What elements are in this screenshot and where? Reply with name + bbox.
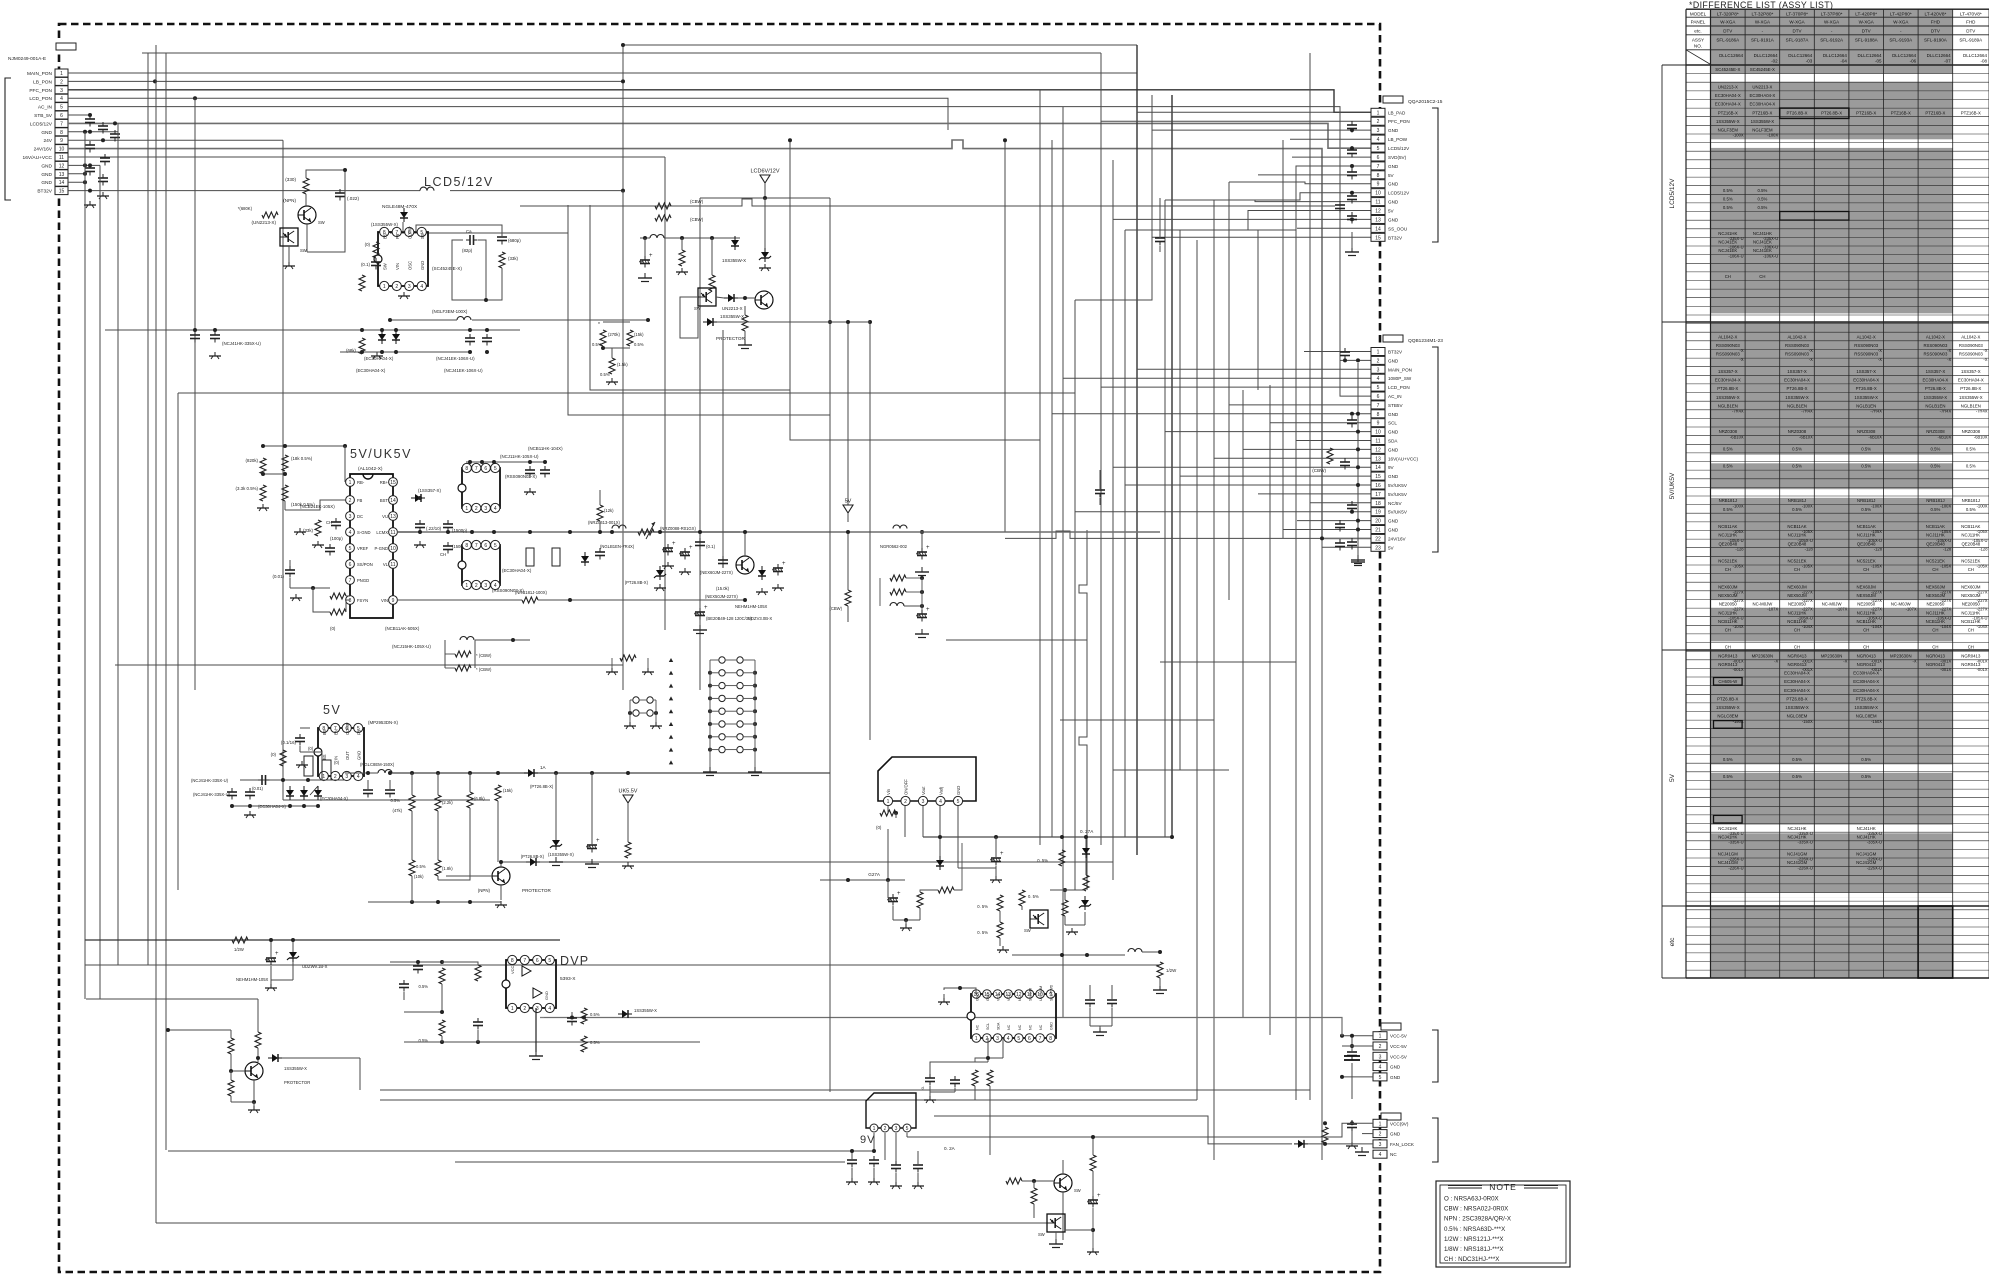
wire bbox=[1152, 95, 1371, 130]
svg-text:5V: 5V bbox=[1669, 773, 1676, 782]
wire bbox=[1113, 466, 1371, 468]
svg-text:EC30HA04-X: EC30HA04-X bbox=[1784, 688, 1810, 693]
svg-text:1: 1 bbox=[511, 1006, 514, 1012]
svg-text:-100X: -100X bbox=[1733, 133, 1744, 138]
polarized capacitor bbox=[684, 548, 686, 552]
svg-text:11: 11 bbox=[1375, 439, 1380, 445]
wire bbox=[232, 805, 318, 807]
svg-text:-7R4X: -7R4X bbox=[1732, 409, 1744, 414]
svg-text:(15.0k): (15.0k) bbox=[716, 586, 730, 591]
wire bbox=[84, 940, 86, 999]
ground bbox=[262, 504, 264, 508]
svg-text:6: 6 bbox=[484, 543, 487, 549]
wire bbox=[257, 999, 259, 1032]
wire bbox=[627, 803, 629, 842]
svg-text:SFL-9189A: SFL-9189A bbox=[1959, 37, 1982, 42]
svg-text:12: 12 bbox=[59, 163, 65, 169]
svg-text:-X: -X bbox=[1913, 659, 1917, 664]
svg-text:2: 2 bbox=[1379, 1044, 1382, 1050]
ground bbox=[929, 1096, 931, 1100]
wire bbox=[1064, 890, 1066, 900]
ic U8 16-pin bbox=[971, 994, 1056, 1038]
wire bbox=[263, 445, 345, 447]
svg-text:8: 8 bbox=[60, 130, 63, 136]
svg-text:14: 14 bbox=[390, 498, 396, 504]
svg-text:CH: CH bbox=[1863, 645, 1869, 650]
svg-text:GND: GND bbox=[1390, 1065, 1401, 1070]
ground bbox=[591, 859, 593, 864]
svg-text:(0): (0) bbox=[876, 825, 882, 830]
svg-text:14: 14 bbox=[1375, 465, 1381, 471]
resistor 0.5% bbox=[1059, 850, 1065, 866]
svg-text:-106X-U: -106X-U bbox=[1763, 253, 1778, 258]
wire bbox=[455, 1161, 845, 1163]
svg-text:8: 8 bbox=[1377, 173, 1380, 179]
wire bbox=[1270, 422, 1371, 424]
wire bbox=[929, 1086, 931, 1096]
svg-text:DLLC12664: DLLC12664 bbox=[1927, 53, 1952, 58]
wire bbox=[68, 131, 118, 133]
svg-text:(2.2k): (2.2k) bbox=[442, 800, 453, 805]
wire bbox=[105, 329, 340, 331]
connector VCC(9V) pins bbox=[1373, 1119, 1387, 1127]
svg-text:PT26.8B-X: PT26.8B-X bbox=[1856, 386, 1877, 391]
svg-text:-03: -03 bbox=[1806, 58, 1813, 63]
diode bbox=[1294, 1143, 1298, 1145]
svg-text:-7R4X: -7R4X bbox=[1940, 409, 1952, 414]
resistor 0.5% bbox=[439, 1020, 445, 1036]
svg-text:0.5%: 0.5% bbox=[1792, 464, 1802, 469]
svg-text:AL1042-X: AL1042-X bbox=[1718, 334, 1737, 339]
svg-text:LT-420P8*: LT-420P8* bbox=[1855, 12, 1877, 17]
svg-text:GND: GND bbox=[1050, 1022, 1054, 1030]
svg-text:W-XGA: W-XGA bbox=[1824, 20, 1839, 25]
svg-text:LCD_PON: LCD_PON bbox=[29, 96, 52, 102]
svg-text:1SS355W-X: 1SS355W-X bbox=[1716, 705, 1740, 710]
svg-text:*: * bbox=[598, 322, 600, 328]
wire bbox=[722, 330, 724, 568]
svg-text:CH: CH bbox=[1794, 645, 1800, 650]
svg-text:9V: 9V bbox=[1388, 465, 1395, 470]
capacitor bbox=[1351, 538, 1353, 542]
svg-text:LT-37P80*: LT-37P80* bbox=[1821, 12, 1843, 17]
svg-text:1/2W: 1/2W bbox=[1166, 968, 1177, 973]
capacitor bbox=[1351, 192, 1353, 196]
svg-text:-001X: -001X bbox=[1940, 667, 1951, 672]
svg-text:EC30HA04-X: EC30HA04-X bbox=[1853, 671, 1879, 676]
svg-text:+: + bbox=[689, 545, 693, 551]
fuse bbox=[526, 548, 534, 566]
svg-text:2: 2 bbox=[349, 498, 352, 504]
svg-text:(12k): (12k) bbox=[604, 508, 614, 513]
svg-text:S-GND: S-GND bbox=[357, 530, 371, 535]
optocoupler UN2213-X bbox=[698, 288, 716, 306]
svg-text:-X: -X bbox=[1878, 357, 1882, 362]
ground bbox=[500, 901, 502, 905]
wire bbox=[142, 52, 1101, 54]
svg-text:0.5%: 0.5% bbox=[1723, 188, 1733, 193]
svg-text:2: 2 bbox=[523, 1006, 526, 1012]
svg-text:CH: CH bbox=[1725, 567, 1731, 572]
wire bbox=[654, 531, 740, 533]
svg-text:(NPN): (NPN) bbox=[478, 888, 491, 893]
table grid bbox=[1711, 9, 1953, 65]
wire bbox=[1258, 493, 1371, 495]
wire bbox=[194, 98, 196, 690]
svg-text:FAN_LOCK: FAN_LOCK bbox=[1390, 1142, 1415, 1147]
svg-text:GND: GND bbox=[1388, 217, 1399, 222]
wire bbox=[115, 664, 623, 666]
capacitor NCJ41EK-106X-U bbox=[486, 334, 488, 338]
svg-text:STB_5V: STB_5V bbox=[34, 113, 53, 119]
capacitor bbox=[544, 466, 546, 470]
svg-text:EC30HA04-X: EC30HA04-X bbox=[1715, 378, 1741, 383]
resistor bbox=[972, 1070, 978, 1086]
inductor bbox=[650, 235, 664, 239]
wire bbox=[1338, 1018, 1342, 1036]
capacitor bbox=[403, 980, 405, 984]
svg-text:8: 8 bbox=[1049, 1036, 1052, 1042]
svg-text:1/2W : NRS121J-***X: 1/2W : NRS121J-***X bbox=[1444, 1236, 1504, 1243]
svg-text:EC30HA04-X: EC30HA04-X bbox=[1853, 679, 1879, 684]
svg-text:CH: CH bbox=[1725, 274, 1731, 279]
svg-text:4: 4 bbox=[1379, 1152, 1382, 1158]
svg-text:SFL-9187A: SFL-9187A bbox=[1786, 37, 1809, 42]
svg-text:1SS355W-X: 1SS355W-X bbox=[722, 258, 746, 263]
resistor (15k) bbox=[495, 785, 501, 801]
svg-text:PT26.8B-X: PT26.8B-X bbox=[1786, 110, 1807, 115]
svg-text:5V: 5V bbox=[323, 703, 341, 717]
wire bbox=[1165, 200, 1371, 202]
resistor bbox=[938, 887, 954, 893]
wire staircase to FAN_LOCK bbox=[934, 1116, 1292, 1144]
svg-text:(NRZ0413-001X): (NRZ0413-001X) bbox=[588, 520, 620, 525]
ground bbox=[667, 562, 669, 566]
svg-text:UN2213-X: UN2213-X bbox=[1718, 84, 1738, 89]
diode 1SS355W-X protector bbox=[703, 321, 707, 323]
svg-text:-128: -128 bbox=[1943, 546, 1952, 551]
svg-text:-X: -X bbox=[1774, 659, 1778, 664]
svg-text:-X: -X bbox=[1809, 357, 1813, 362]
svg-text:FHD: FHD bbox=[1966, 20, 1976, 25]
svg-text:DTV: DTV bbox=[1793, 28, 1802, 33]
svg-text:PANEL: PANEL bbox=[1691, 20, 1706, 25]
svg-text:-X: -X bbox=[1983, 348, 1987, 353]
svg-text:0.5%: 0.5% bbox=[1723, 757, 1733, 762]
svg-text:Vout: Vout bbox=[921, 786, 926, 795]
ground bbox=[1002, 946, 1004, 950]
svg-text:RSS090N03: RSS090N03 bbox=[1923, 343, 1947, 348]
svg-text:(0): (0) bbox=[271, 752, 277, 757]
ground bbox=[709, 767, 711, 772]
svg-text:2: 2 bbox=[1377, 119, 1380, 125]
inductor NGLC8EM-150X bbox=[378, 770, 392, 774]
svg-text:DTV: DTV bbox=[1723, 28, 1732, 33]
svg-text:SW: SW bbox=[1038, 1232, 1045, 1237]
svg-text:-X: -X bbox=[1947, 348, 1951, 353]
ground bbox=[529, 488, 531, 492]
wire bbox=[1180, 166, 1371, 230]
svg-text:2: 2 bbox=[334, 774, 337, 780]
svg-text:5V/UK5V: 5V/UK5V bbox=[1388, 483, 1408, 488]
svg-text:9: 9 bbox=[392, 598, 395, 604]
svg-text:PNGD: PNGD bbox=[357, 578, 369, 583]
resistor (CBW) bbox=[845, 590, 851, 606]
svg-text:1SS357-X: 1SS357-X bbox=[1856, 369, 1876, 374]
diode EC30HA04-X bbox=[395, 330, 397, 334]
wire bbox=[68, 164, 100, 166]
wire bbox=[847, 532, 849, 590]
resistor (0) FSYN bbox=[330, 609, 346, 615]
svg-text:MP23630N: MP23630N bbox=[1821, 653, 1843, 658]
resistor (330) bbox=[303, 178, 309, 194]
svg-text:LT-420V8*: LT-420V8* bbox=[1924, 12, 1946, 17]
svg-text:0.5%: 0.5% bbox=[1758, 197, 1768, 202]
ground bbox=[1357, 557, 1359, 562]
svg-text:BT32V: BT32V bbox=[37, 189, 52, 195]
wire bbox=[178, 392, 1075, 394]
polarized capacitor bbox=[892, 894, 894, 898]
svg-text:10: 10 bbox=[1375, 430, 1381, 436]
svg-text:GND: GND bbox=[1388, 358, 1399, 363]
diode 1SS355W-X bbox=[526, 861, 530, 863]
svg-text:21: 21 bbox=[1375, 528, 1381, 534]
wire 0.2A bbox=[907, 1123, 1373, 1137]
wire bbox=[390, 233, 830, 415]
capacitor bbox=[917, 1161, 919, 1165]
svg-text:5V: 5V bbox=[1388, 173, 1395, 178]
wire bbox=[177, 393, 179, 890]
svg-text:LT-32P80*: LT-32P80* bbox=[1751, 12, 1773, 17]
svg-text:W-XGA: W-XGA bbox=[1755, 20, 1770, 25]
svg-text:1/2W: 1/2W bbox=[234, 947, 244, 952]
svg-text:PTZ6.8B-X: PTZ6.8B-X bbox=[1856, 697, 1877, 702]
wire bbox=[1089, 1008, 1091, 1026]
svg-text:-X: -X bbox=[1878, 348, 1882, 353]
svg-text:MAIN_PON: MAIN_PON bbox=[1388, 367, 1412, 372]
svg-text:0.5%: 0.5% bbox=[1723, 205, 1733, 210]
svg-text:16V/AU+VCC: 16V/AU+VCC bbox=[23, 155, 53, 161]
svg-text:1: 1 bbox=[465, 583, 468, 589]
svg-text:5: 5 bbox=[349, 546, 352, 552]
resistor (3.3k 0.5%) bbox=[260, 485, 266, 501]
svg-text:+: + bbox=[1097, 1193, 1101, 1199]
svg-text:* (CBW): * (CBW) bbox=[476, 653, 492, 658]
capacitor (.022) bbox=[339, 189, 341, 193]
svg-text:LCD5/12V: LCD5/12V bbox=[30, 121, 53, 127]
svg-text:0. 2A: 0. 2A bbox=[944, 1146, 956, 1151]
zener diode UDZW9.1B-X bbox=[292, 948, 294, 952]
capacitor bbox=[1351, 168, 1353, 172]
svg-text:SEL/PWD: SEL/PWD bbox=[1050, 984, 1054, 1001]
wire bbox=[289, 560, 291, 566]
svg-text:20: 20 bbox=[1375, 519, 1381, 525]
svg-text:22: 22 bbox=[1375, 536, 1381, 542]
wire bbox=[1171, 95, 1173, 837]
svg-text:-100X: -100X bbox=[1733, 503, 1744, 508]
ground bbox=[535, 1051, 537, 1056]
ground bbox=[627, 862, 629, 866]
capacitor Ca (82p) bbox=[466, 239, 470, 241]
svg-text:2: 2 bbox=[1377, 358, 1380, 364]
svg-text:0.5%: 0.5% bbox=[1966, 447, 1976, 452]
wire bbox=[368, 901, 501, 903]
ground bbox=[1071, 928, 1073, 932]
wire bbox=[887, 880, 889, 898]
svg-text:-106X-U: -106X-U bbox=[1728, 253, 1743, 258]
resistor (33k) bbox=[315, 520, 321, 536]
wire bbox=[943, 994, 945, 998]
transistor Q1 NPN bbox=[298, 206, 316, 224]
svg-text:PT26.8B-X: PT26.8B-X bbox=[1821, 110, 1842, 115]
capacitor CH bbox=[447, 542, 449, 546]
svg-text:2: 2 bbox=[1379, 1132, 1382, 1138]
svg-text:0.5% : NRSA63D-***X: 0.5% : NRSA63D-***X bbox=[1444, 1226, 1505, 1233]
svg-text:14: 14 bbox=[1375, 226, 1381, 232]
diode 1SS355W-X bbox=[618, 1013, 622, 1015]
svg-text:DLLC12664: DLLC12664 bbox=[1892, 53, 1917, 58]
svg-text:(0.01): (0.01) bbox=[273, 574, 285, 579]
svg-text:QQA2015C2-15: QQA2015C2-15 bbox=[1408, 99, 1443, 105]
svg-text:FSYN: FSYN bbox=[357, 598, 368, 603]
wire bbox=[1060, 719, 1214, 721]
svg-text:(0.1/16): (0.1/16) bbox=[281, 740, 297, 745]
svg-text:-104X: -104X bbox=[1871, 624, 1882, 629]
svg-text:1: 1 bbox=[1377, 350, 1380, 356]
ground bbox=[555, 857, 557, 862]
svg-text:2: 2 bbox=[884, 1126, 887, 1132]
svg-text:0.5%: 0.5% bbox=[1861, 464, 1871, 469]
wire bbox=[1179, 230, 1181, 770]
svg-text:8: 8 bbox=[349, 598, 352, 604]
svg-text:NOTE: NOTE bbox=[1489, 1182, 1517, 1192]
svg-text:1SS357-X: 1SS357-X bbox=[1718, 369, 1738, 374]
wire bbox=[995, 837, 997, 858]
svg-text:8: 8 bbox=[1377, 412, 1380, 418]
svg-text:5: 5 bbox=[957, 799, 960, 805]
svg-text:SFL-9188A: SFL-9188A bbox=[1855, 37, 1878, 42]
svg-text:6: 6 bbox=[1377, 394, 1380, 400]
svg-text:2: 2 bbox=[475, 583, 478, 589]
svg-text:1: 1 bbox=[975, 1036, 978, 1042]
svg-text:AL1042-X: AL1042-X bbox=[1926, 334, 1945, 339]
svg-text:CH605-W: CH605-W bbox=[1718, 679, 1738, 684]
wire bbox=[68, 156, 665, 158]
svg-text:0.5%: 0.5% bbox=[390, 798, 400, 803]
transistor Q2 NPN bbox=[755, 291, 773, 309]
resistor bbox=[987, 1070, 993, 1086]
svg-text:COMP: COMP bbox=[345, 722, 350, 735]
svg-text:(NEX50JM-227X): (NEX50JM-227X) bbox=[705, 594, 738, 599]
capacitor bbox=[571, 1014, 573, 1018]
wire bbox=[1321, 538, 1323, 1160]
svg-text:0.5%: 0.5% bbox=[1723, 507, 1733, 512]
wire GND bus QQB bbox=[1357, 363, 1359, 556]
resistor (18k 0.5%) bbox=[282, 455, 288, 471]
svg-text:VCC-5V: VCC-5V bbox=[1390, 1044, 1408, 1049]
svg-text:(NCJ41HK-335X-U): (NCJ41HK-335X-U) bbox=[193, 792, 231, 797]
svg-text:PROTECTOR: PROTECTOR bbox=[716, 336, 745, 341]
svg-text:(NGLB1EN-7R4X): (NGLB1EN-7R4X) bbox=[600, 544, 635, 549]
wire bbox=[1228, 182, 1230, 600]
svg-text:GND: GND bbox=[1390, 1075, 1401, 1080]
polarized capacitor BE20B49-128 bbox=[699, 608, 701, 612]
svg-text:13: 13 bbox=[1375, 217, 1381, 223]
wire bbox=[1292, 156, 1371, 158]
resistor 0.5% (47k) bbox=[409, 795, 415, 811]
svg-text:SDA: SDA bbox=[1388, 439, 1398, 444]
svg-text:(NPN): (NPN) bbox=[283, 198, 296, 203]
svg-text:EC30HA04-X: EC30HA04-X bbox=[1853, 378, 1879, 383]
svg-text:-335X-U: -335X-U bbox=[1798, 840, 1813, 845]
capacitor bbox=[102, 174, 104, 178]
svg-text:BT32V: BT32V bbox=[1388, 350, 1403, 355]
ground bbox=[376, 352, 378, 356]
svg-text:8: 8 bbox=[511, 958, 514, 964]
svg-text:GND: GND bbox=[1388, 519, 1399, 524]
polarized capacitor NEHM1HM-105X bbox=[270, 954, 272, 958]
wire bbox=[1213, 200, 1215, 1160]
wire bbox=[1297, 520, 1371, 522]
wire bbox=[847, 322, 849, 505]
svg-text:(NRB181J-100X): (NRB181J-100X) bbox=[515, 590, 547, 595]
capacitor (0.1) bbox=[699, 538, 701, 542]
svg-text:VREF: VREF bbox=[357, 546, 369, 551]
polarized capacitor bbox=[1092, 1196, 1094, 1200]
resistor (68k) bbox=[359, 338, 365, 354]
diode 1SS355W-X bbox=[268, 1057, 272, 1059]
wire bbox=[1214, 193, 1371, 200]
power 9V bbox=[843, 505, 853, 513]
wire bbox=[1113, 769, 1229, 771]
svg-text:-02: -02 bbox=[1771, 58, 1778, 63]
resistor (820k) bbox=[260, 458, 266, 474]
capacitor bbox=[1159, 234, 1161, 238]
svg-text:GND: GND bbox=[41, 163, 52, 169]
wire bbox=[1012, 954, 1125, 956]
svg-text:3: 3 bbox=[1377, 367, 1380, 373]
ground bbox=[611, 668, 613, 672]
svg-text:SS/PON: SS/PON bbox=[357, 562, 373, 567]
svg-text:Vadj: Vadj bbox=[939, 787, 944, 795]
svg-text:(330): (330) bbox=[285, 177, 296, 182]
fuse (0) bbox=[304, 756, 313, 776]
svg-text:0.5%: 0.5% bbox=[1861, 447, 1871, 452]
inductor NGLF3EM-100X bbox=[457, 317, 471, 321]
svg-text:5: 5 bbox=[1017, 1036, 1020, 1042]
svg-text:CH: CH bbox=[1863, 567, 1869, 572]
svg-text:-150X: -150X bbox=[1802, 719, 1813, 724]
svg-text:2: 2 bbox=[475, 506, 478, 512]
zener PT26.8B-X bbox=[659, 566, 661, 570]
svg-text:3: 3 bbox=[408, 284, 411, 290]
svg-text:GND: GND bbox=[1388, 528, 1399, 533]
wire 12k bbox=[597, 505, 603, 521]
svg-text:(CBW): (CBW) bbox=[1312, 468, 1326, 473]
svg-text:-104X: -104X bbox=[1977, 624, 1988, 629]
wire bbox=[1113, 218, 1371, 220]
svg-text:PFC_PON: PFC_PON bbox=[1388, 119, 1410, 124]
transistor Q4 NPN bbox=[492, 867, 510, 885]
inductor bbox=[460, 637, 474, 641]
capacitor bbox=[114, 130, 116, 134]
svg-text:RSS090N03: RSS090N03 bbox=[1785, 343, 1809, 348]
svg-text:1SS357-X: 1SS357-X bbox=[1787, 369, 1807, 374]
svg-text:7: 7 bbox=[475, 543, 478, 549]
svg-text:SDA: SDA bbox=[997, 1022, 1001, 1030]
wire bbox=[622, 191, 624, 690]
wire bbox=[299, 746, 301, 752]
